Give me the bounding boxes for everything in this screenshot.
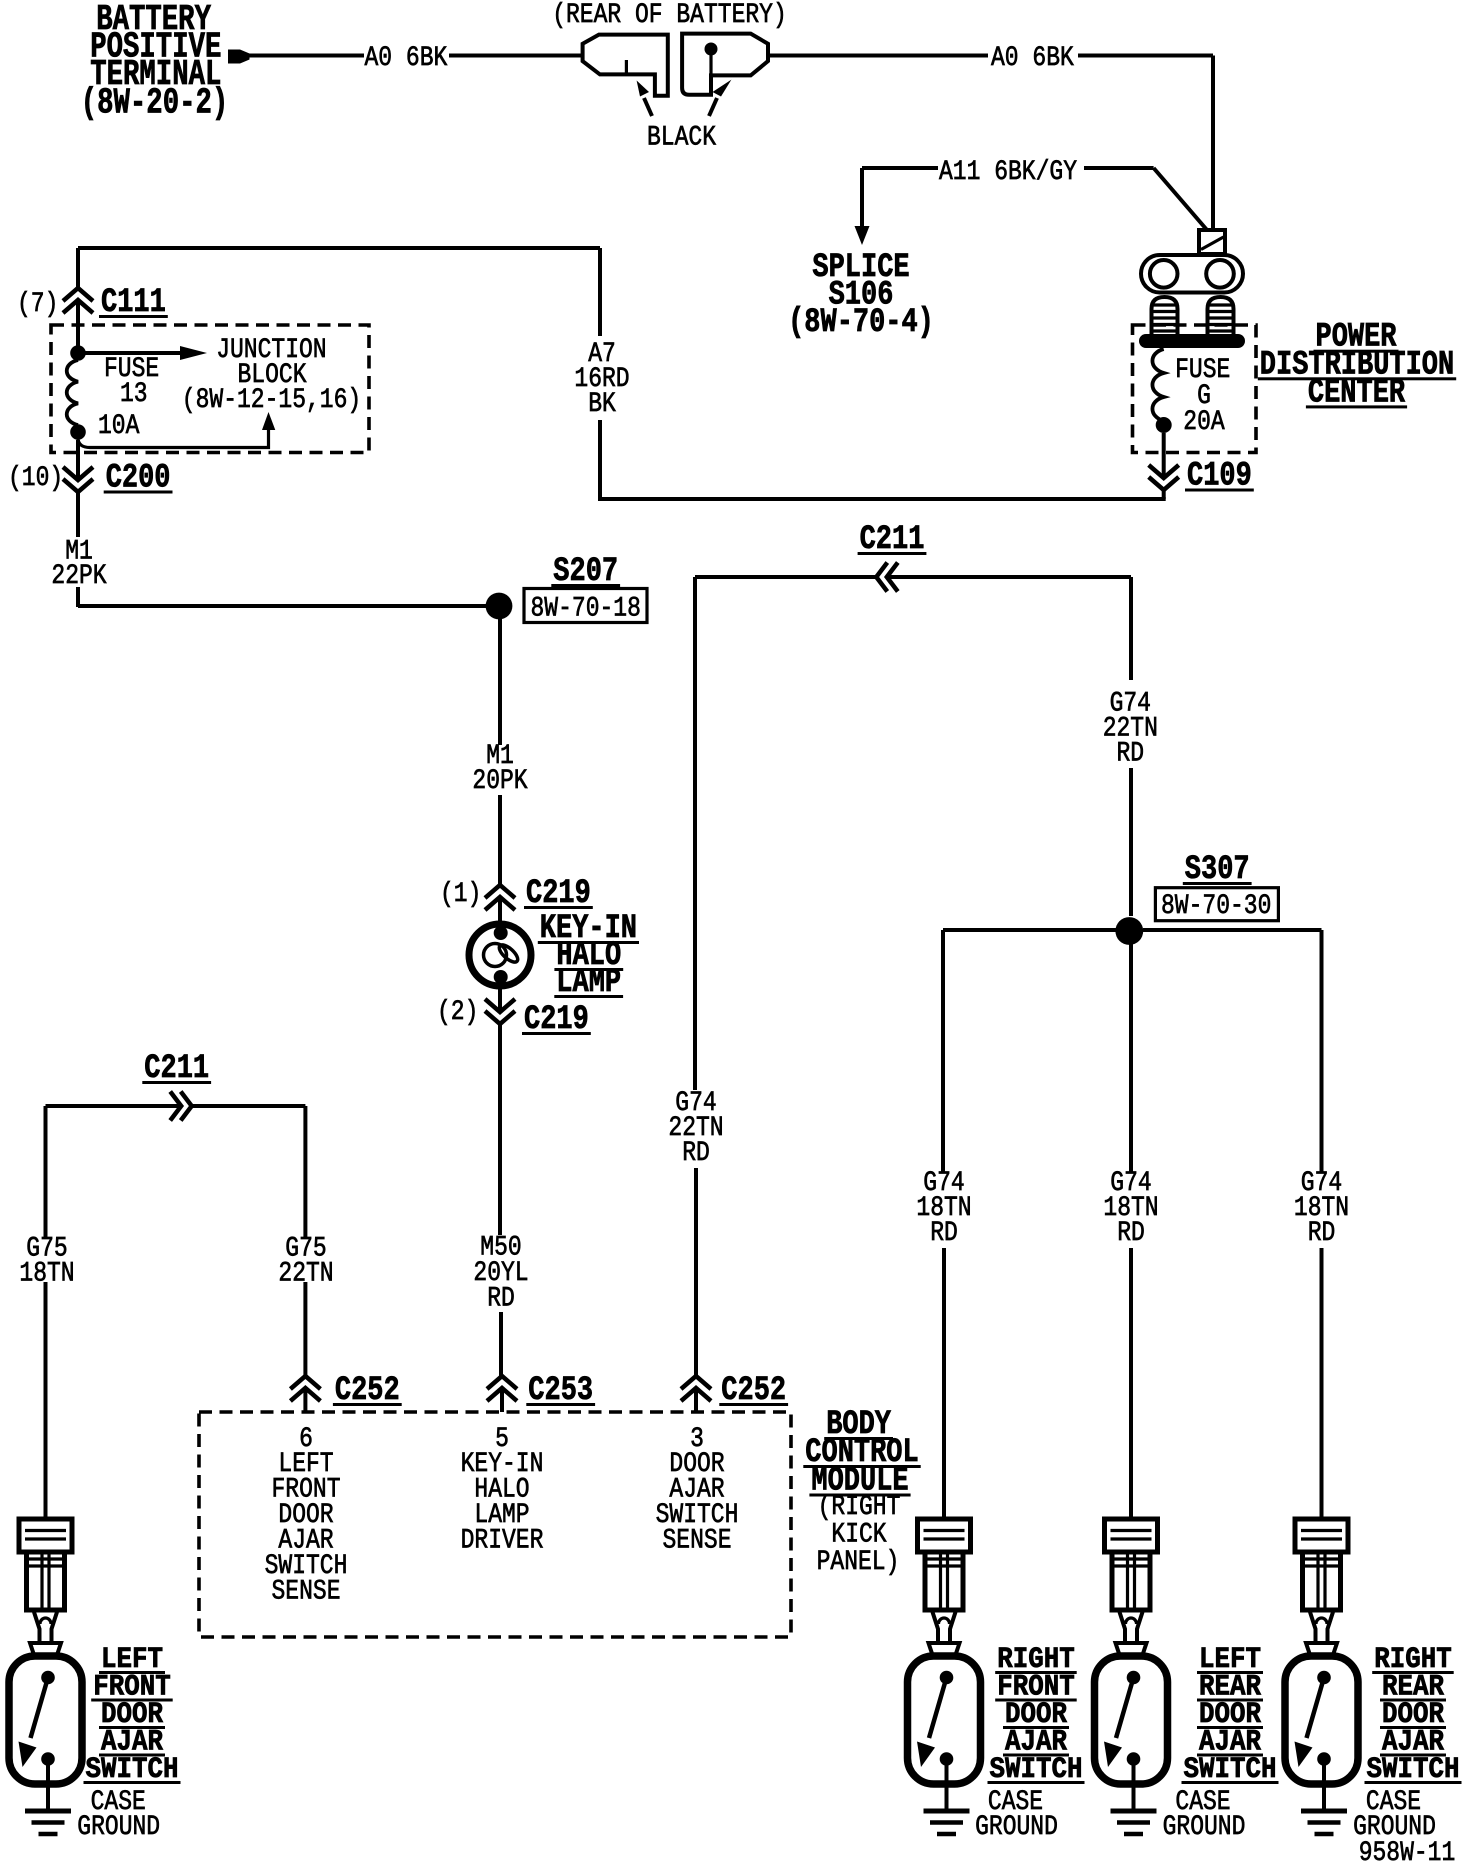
wire G74 18TN RD (left rear leg) [1129,944,1133,1521]
arrow to battery positive terminal [228,50,250,64]
wire label G74 22TN RD (S307 leg) [1103,689,1158,770]
svg-text:RD: RD [1308,1218,1336,1249]
wire into key-in halo lamp [498,899,502,928]
connector C211 (lower) label [142,1050,211,1088]
wire from fuse G to C109 [1162,433,1166,479]
svg-text:SENSE: SENSE [272,1577,341,1608]
connector C211 (upper) symbol [876,563,898,592]
wire A0 6BK right segment [768,54,988,58]
wire G75 18TN [44,1106,48,1521]
connector C252 (pin 3) [681,1376,711,1401]
connector C111 [63,288,93,313]
S207 reference box 8W-70-18 [524,589,647,625]
wire label G74 18TN RD (right rear) [1294,1168,1349,1249]
svg-text:(8W-20-2): (8W-20-2) [81,82,229,123]
wire G75 22TN [303,1106,307,1377]
node: fuse 13 feed junction [70,345,86,361]
wire from junction block top run [78,248,600,289]
PDC terminal studs [1152,297,1178,335]
connector C211 (lower) symbol [170,1092,192,1121]
svg-text:10A: 10A [98,411,140,442]
fusible link connector (left half) [583,35,668,96]
svg-text:A11 6BK/GY: A11 6BK/GY [939,157,1077,188]
BCM pin 5 label [461,1424,544,1557]
svg-text:958W-11: 958W-11 [1359,1838,1456,1869]
svg-text:A0 6BK: A0 6BK [365,43,448,74]
wire label A0 6BK (left) [365,43,448,74]
wire label A0 6BK (right) [991,43,1074,74]
wire from lamp to C219 pin 2 [498,984,502,1013]
connector label C252 (pin 6) [333,1372,402,1410]
splice S106 label [788,249,934,342]
svg-text:(REAR OF BATTERY): (REAR OF BATTERY) [552,0,787,31]
wire label G75 18TN [19,1234,74,1290]
connector label C252 (pin 3) [719,1372,788,1410]
body control module dashed box [199,1412,791,1637]
connector C219 pin 2 [485,999,515,1024]
connector label C219 (top) [524,875,593,913]
svg-text:PANEL): PANEL) [817,1547,900,1578]
node: fuse 13 output junction [70,424,86,440]
wire label A7 16RD BK [574,339,629,420]
connector C253 (pin 5) [487,1376,517,1401]
svg-text:18TN: 18TN [19,1259,74,1290]
wire A7 16RD BK vertical [598,248,602,501]
wire to left fusible link [449,54,583,58]
svg-text:A0 6BK: A0 6BK [991,43,1074,74]
wire G74 18TN RD (right front leg) [943,930,944,1521]
svg-text:SENSE: SENSE [663,1526,732,1557]
BCM pin 3 label [656,1424,739,1557]
key-in halo lamp label [538,910,639,1002]
wire pin 6 into BCM [303,1389,307,1412]
svg-text:(7): (7) [17,289,58,320]
pin label (7) [17,289,58,320]
wire from fuse 13 to C200 [76,440,80,481]
wire A11 6BK/GY segments [862,168,1207,230]
body control module label [803,1406,920,1578]
battery positive terminal label [81,0,229,123]
fuse 13 label [98,354,159,442]
svg-text:(10): (10) [8,463,63,494]
svg-text:22TN: 22TN [278,1259,333,1290]
svg-text:(2): (2) [437,997,478,1028]
svg-text:GROUND: GROUND [1163,1812,1246,1843]
svg-text:20A: 20A [1183,407,1225,438]
wire label G74 18TN RD (right front) [916,1168,971,1249]
svg-text:KICK: KICK [831,1520,886,1551]
svg-text:20PK: 20PK [472,766,527,797]
svg-text:DRIVER: DRIVER [461,1526,544,1557]
connector label C253 [526,1372,595,1410]
PDC bus bar [1139,334,1245,348]
S307 reference box 8W-70-30 [1155,888,1278,922]
fusible link connector (right half) [682,34,768,95]
label (REAR OF BATTERY) [552,0,787,31]
wire G74 22TN RD (right leg to S307) [1129,577,1133,916]
splice S207 label [551,553,620,591]
wire through connector C211 (lower) [46,1104,306,1108]
arrow from fuse output to junction block text [78,412,275,448]
arrow to splice S106 [855,226,870,245]
arrows and label BLACK [637,80,732,154]
wire A0 6BK left segment [246,54,364,58]
wire pin 5 into BCM [500,1389,504,1412]
svg-text:(8W-12-15,16): (8W-12-15,16) [182,385,361,416]
wire label M50 20YL RD [473,1233,528,1315]
case ground label (right front) [975,1787,1058,1843]
right front door ajar switch [908,1519,981,1834]
crimp splice symbol at PDC terminal [1199,230,1225,254]
wire label M1 20PK [472,741,527,797]
key-in halo lamp [469,924,531,986]
svg-text:GROUND: GROUND [975,1812,1058,1843]
connector label C200 [104,460,173,498]
connector label C219 (bottom) [522,1001,591,1039]
splice S307 label [1183,851,1252,889]
svg-text:(RIGHT: (RIGHT [818,1492,901,1523]
left front door ajar switch label [84,1643,181,1787]
connector C109 [1149,458,1254,496]
fuse G 20A element [1152,349,1171,433]
BCM pin 6 label [265,1424,348,1608]
wire label G74 18TN RD (left rear) [1103,1168,1158,1249]
S307 branch wires [943,928,1322,932]
wire label G74 22TN RD (pin 3 leg) [668,1088,723,1169]
svg-text:BLACK: BLACK [647,123,716,154]
junction block label [182,335,361,416]
case ground label (left rear) [1163,1787,1246,1843]
case ground label (right rear) [1353,1787,1436,1843]
wire M1 22PK [78,493,487,607]
connector label C111 [99,284,168,322]
wire pin 3 into BCM [694,1389,698,1412]
wire M1 20PK [498,619,502,887]
right rear door ajar switch label [1365,1643,1462,1787]
pin label (2) [437,997,478,1028]
svg-text:(8W-70-4): (8W-70-4) [788,304,934,342]
splice S207 node [486,593,513,620]
svg-text:RD: RD [930,1218,958,1249]
svg-text:13: 13 [120,379,148,410]
fuse G 20A label [1175,355,1230,438]
splice S307 node [1115,917,1143,945]
left front door ajar switch [9,1519,82,1834]
power distribution center label [1258,319,1456,413]
wire G74 18TN RD (right rear leg) [1320,930,1324,1521]
wire from C109 to A7 junction [600,491,1166,499]
connector C252 (pin 6) [290,1376,320,1401]
svg-text:(1): (1) [440,879,481,910]
arrow to junction block text [83,346,207,360]
connector C200 [63,467,93,492]
pin label (10) [8,463,63,494]
svg-text:RD: RD [1117,1218,1145,1249]
left rear door ajar switch [1095,1519,1168,1834]
case ground label (left front) [77,1787,160,1843]
svg-text:RD: RD [682,1138,710,1169]
connector C211 (upper) label [858,521,927,559]
svg-text:RD: RD [1117,739,1145,770]
svg-text:8W-70-18: 8W-70-18 [531,594,641,625]
wire label A11 6BK/GY [939,157,1077,188]
wire into fuse 13 [76,301,80,353]
svg-text:22PK: 22PK [51,561,106,592]
fuse 13 element [67,360,78,425]
svg-text:8W-70-30: 8W-70-30 [1161,891,1271,922]
drawing number 958W-11 [1359,1838,1456,1869]
wire A0 6BK to power distribution center [1078,56,1213,231]
svg-text:GROUND: GROUND [77,1812,160,1843]
right rear door ajar switch [1285,1519,1358,1834]
junction block dashed box [51,325,369,453]
wire through connector C211 (upper) [695,575,1131,579]
connector C219 pin 1 [485,885,515,910]
wire M50 20YL RD [500,1025,501,1377]
pin label (1) [440,879,481,910]
left rear door ajar switch label [1182,1643,1279,1787]
wire label G75 22TN [278,1234,333,1290]
svg-text:BK: BK [588,389,616,420]
svg-text:RD: RD [487,1284,515,1315]
right front door ajar switch label [988,1643,1085,1787]
wire G74 22TN RD (left leg to BCM pin 3) [695,577,696,1377]
power distribution center dashed box [1133,325,1257,453]
wire label M1 22PK [51,537,106,593]
PDC battery terminal (stadium with two eyelets) [1141,255,1243,293]
